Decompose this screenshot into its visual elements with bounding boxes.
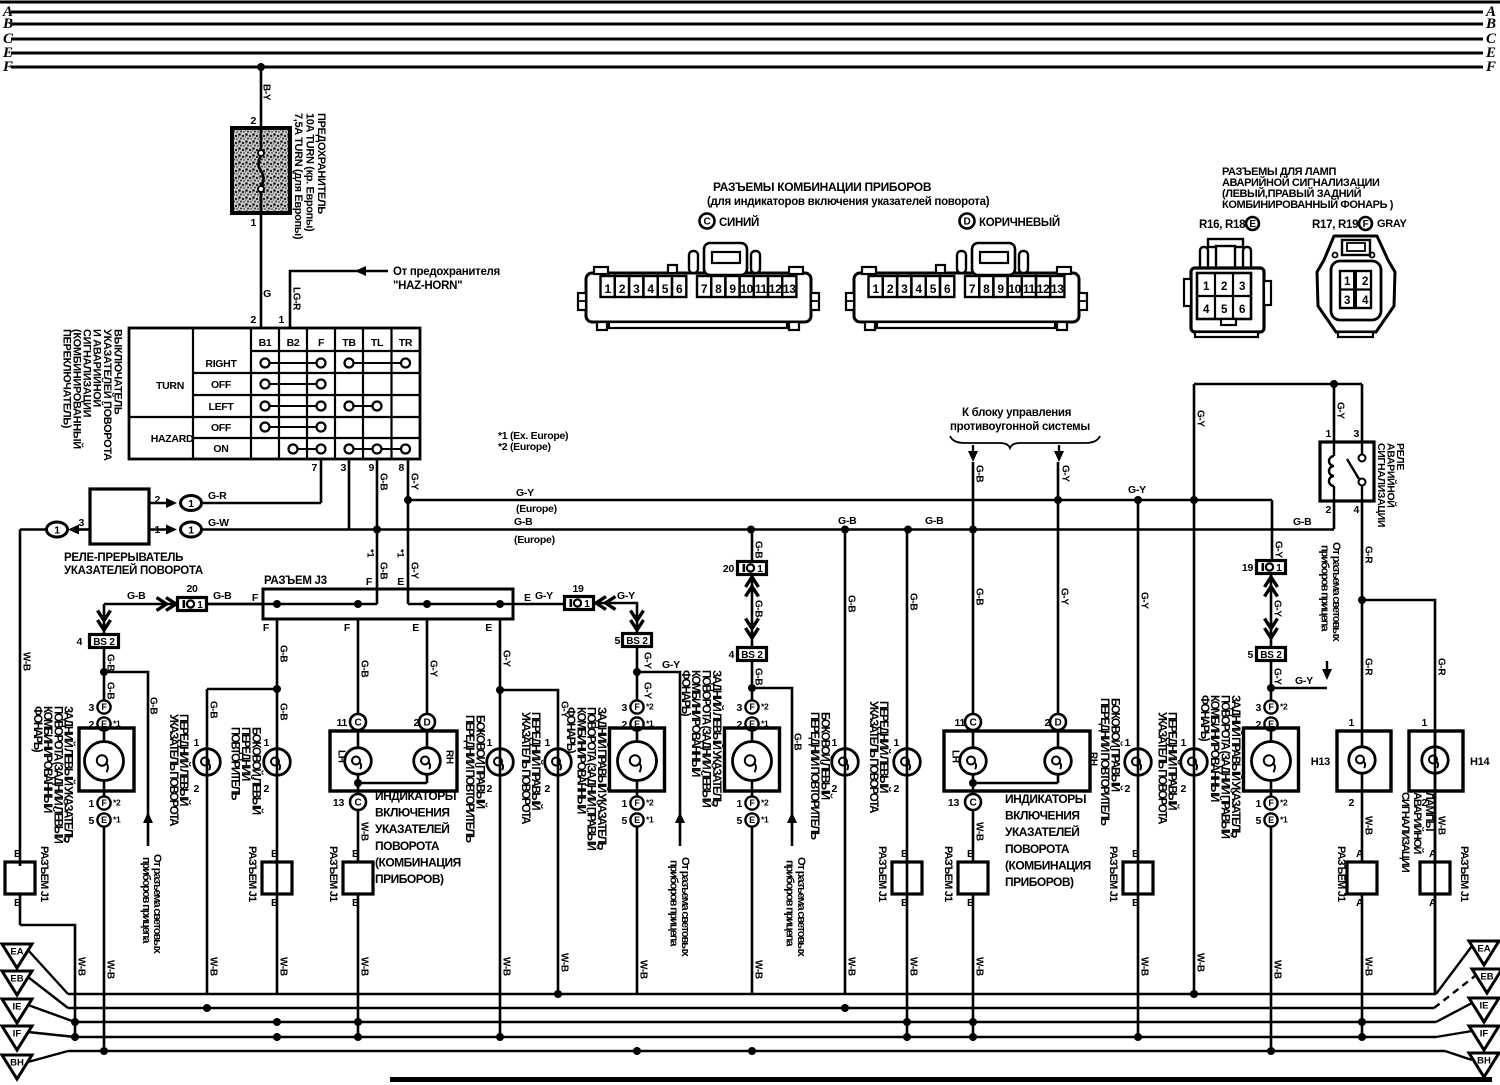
svg-text:*1: *1 <box>365 549 376 558</box>
svg-text:RH: RH <box>444 750 455 764</box>
svg-text:B1: B1 <box>259 337 272 349</box>
svg-text:G-Y: G-Y <box>1295 675 1313 687</box>
svg-text:G: G <box>263 288 271 300</box>
svg-text:G-B: G-B <box>278 645 289 662</box>
svg-text:20: 20 <box>186 583 198 595</box>
svg-text:*1: *1 <box>646 815 654 825</box>
svg-text:2: 2 <box>250 115 256 127</box>
svg-text:УКАЗАТЕЛЕЙ ПОВОРОТА: УКАЗАТЕЛЕЙ ПОВОРОТА <box>64 564 203 577</box>
svg-text:РАЗЪЕМ J1: РАЗЪЕМ J1 <box>1335 846 1347 902</box>
svg-text:G-R: G-R <box>1436 658 1447 676</box>
svg-text:ЛАМПЫ: ЛАМПЫ <box>1423 792 1435 831</box>
svg-text:1: 1 <box>250 217 256 229</box>
svg-text:К блоку управления: К блоку управления <box>962 407 1071 419</box>
svg-text:F: F <box>101 798 107 808</box>
svg-text:1: 1 <box>54 524 60 536</box>
svg-text:1: 1 <box>188 498 194 510</box>
svg-text:TR: TR <box>399 337 413 349</box>
svg-text:3: 3 <box>901 282 908 296</box>
svg-text:ИНДИКАТОРЫ: ИНДИКАТОРЫ <box>375 789 456 803</box>
svg-text:12: 12 <box>769 282 782 296</box>
svg-text:8: 8 <box>398 462 404 474</box>
svg-text:BS 2: BS 2 <box>1260 650 1282 661</box>
svg-text:приборов прицепа: приборов прицепа <box>140 857 152 944</box>
svg-text:G-B: G-B <box>148 697 159 714</box>
svg-text:E: E <box>397 576 404 588</box>
svg-text:2: 2 <box>1348 797 1354 809</box>
svg-text:5: 5 <box>621 815 627 827</box>
svg-text:От предохранителя: От предохранителя <box>393 266 500 278</box>
svg-text:1: 1 <box>1124 737 1130 749</box>
svg-text:7: 7 <box>701 282 708 296</box>
svg-text:1: 1 <box>621 798 627 810</box>
svg-text:RH: RH <box>1088 752 1099 766</box>
svg-text:6: 6 <box>676 282 683 296</box>
svg-text:*2 (Europe): *2 (Europe) <box>498 441 551 453</box>
svg-text:ФОНАРЬ): ФОНАРЬ) <box>679 670 692 717</box>
svg-text:4: 4 <box>915 282 922 296</box>
svg-text:BS 2: BS 2 <box>626 636 648 647</box>
svg-text:F: F <box>634 702 640 712</box>
svg-text:ПОВТОРИТЕЛЬ: ПОВТОРИТЕЛЬ <box>229 727 242 800</box>
svg-text:1: 1 <box>1348 717 1354 729</box>
svg-text:3: 3 <box>1344 295 1350 307</box>
svg-text:4: 4 <box>1203 304 1210 316</box>
svg-text:(КОМБИНАЦИЯ: (КОМБИНАЦИЯ <box>1005 858 1091 872</box>
svg-text:13: 13 <box>783 282 796 296</box>
svg-text:3: 3 <box>1239 281 1245 293</box>
svg-text:2: 2 <box>1124 783 1130 795</box>
svg-text:G-B: G-B <box>846 595 857 612</box>
svg-text:9: 9 <box>729 282 736 296</box>
svg-text:E: E <box>101 815 107 825</box>
svg-text:H14: H14 <box>1470 756 1490 768</box>
svg-text:(Europe): (Europe) <box>516 503 557 515</box>
svg-text:(для индикаторов включения ука: (для индикаторов включения указателей по… <box>707 196 990 208</box>
svg-text:3: 3 <box>1255 702 1261 714</box>
svg-text:5: 5 <box>1247 649 1253 661</box>
svg-text:ПРЕДОХРАНИТЕЛЬ: ПРЕДОХРАНИТЕЛЬ <box>315 113 327 214</box>
svg-text:B: B <box>14 848 22 860</box>
svg-text:B-Y: B-Y <box>261 84 272 101</box>
svg-text:G-Y: G-Y <box>1139 592 1150 609</box>
svg-text:*1: *1 <box>113 815 121 825</box>
svg-text:3: 3 <box>1353 428 1359 440</box>
svg-text:W-B: W-B <box>974 957 985 976</box>
svg-text:A: A <box>1429 848 1437 860</box>
svg-text:2: 2 <box>619 282 626 296</box>
svg-text:F: F <box>1268 798 1274 808</box>
svg-text:B: B <box>352 848 360 860</box>
svg-text:F: F <box>318 337 325 349</box>
svg-text:OFF: OFF <box>211 422 232 434</box>
svg-text:*2: *2 <box>113 798 121 808</box>
svg-text:W-B: W-B <box>1139 957 1150 976</box>
svg-text:3: 3 <box>633 282 640 296</box>
svg-text:1: 1 <box>193 737 199 749</box>
svg-text:От разъема световых: От разъема световых <box>1330 542 1342 642</box>
svg-text:10A TURN (кр. Европы): 10A TURN (кр. Европы) <box>304 113 316 232</box>
svg-text:УКАЗАТЕЛЬ ПОВОРОТА: УКАЗАТЕЛЬ ПОВОРОТА <box>867 701 880 814</box>
svg-text:F: F <box>1363 219 1369 230</box>
svg-text:1: 1 <box>1255 798 1261 810</box>
svg-text:G-B: G-B <box>359 660 370 677</box>
svg-text:РАЗЪЕМ J1: РАЗЪЕМ J1 <box>38 846 50 902</box>
svg-text:*1: *1 <box>761 815 769 825</box>
svg-text:F: F <box>1268 702 1274 712</box>
svg-text:W-B: W-B <box>846 957 857 976</box>
svg-text:W-B: W-B <box>359 822 370 841</box>
svg-text:D: D <box>424 718 431 729</box>
svg-text:G-B: G-B <box>105 682 116 699</box>
svg-text:G-B: G-B <box>278 703 289 720</box>
svg-text:ВКЛЮЧЕНИЯ: ВКЛЮЧЕНИЯ <box>375 806 449 820</box>
svg-text:11: 11 <box>337 717 348 729</box>
svg-text:TB: TB <box>342 337 356 349</box>
svg-text:G-B: G-B <box>213 590 232 602</box>
svg-text:(Europe): (Europe) <box>514 534 555 546</box>
svg-text:13: 13 <box>948 797 960 809</box>
svg-text:2: 2 <box>193 783 199 795</box>
svg-text:5: 5 <box>662 282 669 296</box>
svg-text:4: 4 <box>728 649 734 661</box>
svg-text:1: 1 <box>88 798 94 810</box>
svg-text:E: E <box>485 622 492 634</box>
svg-text:УКАЗАТЕЛЬ ПОВОРОТА: УКАЗАТЕЛЬ ПОВОРОТА <box>519 712 532 825</box>
svg-text:B: B <box>1132 848 1140 860</box>
svg-text:W-B: W-B <box>638 960 649 979</box>
svg-text:G-B: G-B <box>378 473 389 490</box>
svg-text:G-B: G-B <box>753 600 764 617</box>
svg-text:"HAZ-HORN": "HAZ-HORN" <box>393 280 462 292</box>
svg-text:OFF: OFF <box>211 379 232 391</box>
svg-text:4: 4 <box>76 636 82 648</box>
svg-text:G-B: G-B <box>753 668 764 685</box>
svg-text:2: 2 <box>887 282 894 296</box>
svg-text:ИНДИКАТОРЫ: ИНДИКАТОРЫ <box>1005 792 1086 806</box>
svg-text:BS 2: BS 2 <box>93 637 115 648</box>
svg-text:TURN: TURN <box>156 380 184 392</box>
svg-text:1: 1 <box>1276 562 1282 574</box>
svg-text:G-Y: G-Y <box>642 682 653 699</box>
svg-text:G-B: G-B <box>753 541 764 558</box>
svg-text:РАЗЪЕМ J1: РАЗЪЕМ J1 <box>876 846 888 902</box>
svg-text:РАЗЪЕМ J1: РАЗЪЕМ J1 <box>1107 846 1119 902</box>
svg-text:КОМБИНИРОВАННЫЙ ФОНАРЬ ): КОМБИНИРОВАННЫЙ ФОНАРЬ ) <box>1222 198 1394 211</box>
svg-text:5: 5 <box>1255 815 1261 827</box>
svg-text:G-B: G-B <box>838 515 857 527</box>
svg-text:РАЗЪЕМ J1: РАЗЪЕМ J1 <box>942 846 954 902</box>
svg-text:РАЗЪЕМЫ КОМБИНАЦИИ ПРИБОРОВ: РАЗЪЕМЫ КОМБИНАЦИИ ПРИБОРОВ <box>713 180 932 194</box>
svg-text:G-Y: G-Y <box>617 590 635 602</box>
svg-text:B: B <box>1485 16 1496 32</box>
svg-text:G-Y: G-Y <box>642 652 653 669</box>
svg-text:F: F <box>2 59 13 75</box>
svg-text:E: E <box>1249 219 1256 230</box>
svg-text:3: 3 <box>78 517 84 529</box>
svg-text:W-B: W-B <box>105 960 116 979</box>
svg-text:противоугонной системы: противоугонной системы <box>950 421 1090 433</box>
svg-text:EA: EA <box>1477 944 1490 955</box>
svg-text:G-Y: G-Y <box>1335 402 1346 419</box>
svg-text:6: 6 <box>1239 304 1245 316</box>
svg-text:G-R: G-R <box>1363 546 1374 564</box>
svg-text:ПЕРЕКЛЮЧАТЕЛЬ): ПЕРЕКЛЮЧАТЕЛЬ) <box>61 329 73 429</box>
svg-text:F: F <box>749 702 755 712</box>
svg-text:EB: EB <box>1480 972 1493 983</box>
svg-text:IF: IF <box>1480 1029 1489 1040</box>
svg-text:2: 2 <box>544 783 550 795</box>
svg-text:ПЕРЕДНИЙ ПОВТОРИТЕЛЬ: ПЕРЕДНИЙ ПОВТОРИТЕЛЬ <box>1098 698 1111 826</box>
svg-text:5: 5 <box>1221 304 1228 316</box>
svg-text:LEFT: LEFT <box>208 401 234 413</box>
svg-text:IF: IF <box>13 1029 22 1040</box>
svg-text:F: F <box>634 798 640 808</box>
svg-text:РЕЛЕ-ПРЕРЫВАТЕЛЬ: РЕЛЕ-ПРЕРЫВАТЕЛЬ <box>64 552 183 564</box>
svg-text:G-W: G-W <box>208 517 229 529</box>
svg-text:D: D <box>964 217 971 228</box>
svg-text:РАЗЪЕМ J1: РАЗЪЕМ J1 <box>246 846 258 902</box>
svg-text:B: B <box>1132 897 1140 909</box>
svg-text:EA: EA <box>10 947 23 958</box>
svg-text:19: 19 <box>1242 562 1254 574</box>
svg-text:W-B: W-B <box>559 953 570 972</box>
svg-text:F: F <box>252 592 259 604</box>
svg-text:G-B: G-B <box>127 590 146 602</box>
svg-text:G-B: G-B <box>1293 516 1312 528</box>
svg-text:F: F <box>101 702 107 712</box>
svg-text:LG-R: LG-R <box>291 287 302 311</box>
svg-text:W-B: W-B <box>908 957 919 976</box>
svg-text:1: 1 <box>263 737 269 749</box>
svg-text:G-Y: G-Y <box>662 659 680 671</box>
svg-text:B: B <box>2 16 13 32</box>
svg-text:1: 1 <box>1203 281 1210 293</box>
svg-text:ПОВОРОТА: ПОВОРОТА <box>1005 842 1070 856</box>
svg-text:W-B: W-B <box>1363 816 1374 835</box>
svg-text:2: 2 <box>1362 276 1368 288</box>
svg-text:R17, R19: R17, R19 <box>1312 219 1358 231</box>
svg-text:G-Y: G-Y <box>409 473 420 490</box>
svg-text:B: B <box>901 848 909 860</box>
svg-text:2: 2 <box>1180 783 1186 795</box>
svg-text:*2: *2 <box>1280 798 1288 808</box>
svg-text:1: 1 <box>584 598 590 610</box>
svg-text:6: 6 <box>944 282 951 296</box>
svg-text:1: 1 <box>188 524 194 536</box>
svg-text:1: 1 <box>278 314 284 326</box>
svg-text:УКАЗАТЕЛЬ ПОВОРОТА: УКАЗАТЕЛЬ ПОВОРОТА <box>1156 712 1169 825</box>
svg-text:ON: ON <box>213 443 228 455</box>
svg-text:G-Y: G-Y <box>428 660 439 677</box>
svg-text:4: 4 <box>1362 295 1369 307</box>
svg-text:1: 1 <box>1325 428 1331 440</box>
svg-text:W-B: W-B <box>21 652 32 671</box>
svg-text:1: 1 <box>736 798 742 810</box>
svg-text:E: E <box>749 815 755 825</box>
svg-text:ФОНАРЬ): ФОНАРЬ) <box>564 707 577 754</box>
svg-text:7,5A TURN (для Европы): 7,5A TURN (для Европы) <box>292 113 304 240</box>
svg-text:ВКЛЮЧЕНИЯ: ВКЛЮЧЕНИЯ <box>1005 809 1079 823</box>
svg-text:РАЗЪЕМ J1: РАЗЪЕМ J1 <box>1458 846 1470 902</box>
svg-text:5: 5 <box>614 635 620 647</box>
svg-text:F: F <box>263 622 270 634</box>
svg-text:АВАРИЙНОЙ: АВАРИЙНОЙ <box>1411 792 1424 854</box>
svg-text:ПРИБОРОВ): ПРИБОРОВ) <box>375 872 444 886</box>
svg-text:G-B: G-B <box>792 733 803 750</box>
svg-text:20: 20 <box>723 563 735 575</box>
svg-text:11: 11 <box>755 282 768 296</box>
svg-text:G-B: G-B <box>208 701 219 718</box>
svg-text:СИГНАЛИЗАЦИИ: СИГНАЛИЗАЦИИ <box>1399 792 1411 873</box>
svg-text:*2: *2 <box>761 798 769 808</box>
svg-text:5: 5 <box>736 815 742 827</box>
svg-text:ПРИБОРОВ): ПРИБОРОВ) <box>1005 875 1074 889</box>
svg-text:BH: BH <box>1477 1056 1491 1067</box>
svg-text:ФОНАРЬ): ФОНАРЬ) <box>31 706 44 753</box>
svg-text:G-B: G-B <box>974 588 985 605</box>
svg-text:1: 1 <box>197 599 203 611</box>
svg-text:G-Y: G-Y <box>535 590 553 602</box>
svg-text:W-B: W-B <box>1272 960 1283 979</box>
svg-text:F: F <box>1485 59 1496 75</box>
svg-text:приборов прицепа: приборов прицепа <box>668 860 680 947</box>
svg-text:приборов прицепа: приборов прицепа <box>1319 545 1331 632</box>
svg-text:G-B: G-B <box>974 465 985 482</box>
svg-text:G-Y: G-Y <box>1272 668 1283 685</box>
svg-text:3: 3 <box>88 702 94 714</box>
svg-text:ПЕРЕДНИЙ ПОВТОРИТЕЛЬ: ПЕРЕДНИЙ ПОВТОРИТЕЛЬ <box>463 715 476 843</box>
svg-text:W-B: W-B <box>974 822 985 841</box>
svg-text:G-B: G-B <box>925 515 944 527</box>
svg-text:1: 1 <box>1421 717 1427 729</box>
svg-text:4: 4 <box>647 282 654 296</box>
svg-text:11: 11 <box>1023 282 1036 296</box>
svg-text:W-B: W-B <box>208 957 219 976</box>
svg-text:7: 7 <box>969 282 976 296</box>
svg-text:B: B <box>967 848 975 860</box>
svg-text:УКАЗАТЕЛЬ ПОВОРОТА: УКАЗАТЕЛЬ ПОВОРОТА <box>167 714 180 827</box>
svg-text:G-B: G-B <box>514 516 533 528</box>
svg-text:*1: *1 <box>395 549 406 558</box>
svg-text:G-Y: G-Y <box>1060 465 1071 482</box>
svg-text:2: 2 <box>893 783 899 795</box>
svg-text:F: F <box>344 622 351 634</box>
svg-text:1: 1 <box>544 737 550 749</box>
svg-text:10: 10 <box>740 282 753 296</box>
svg-text:3: 3 <box>736 702 742 714</box>
svg-text:УКАЗАТЕЛЕЙ: УКАЗАТЕЛЕЙ <box>1005 824 1079 839</box>
svg-text:*2: *2 <box>646 798 654 808</box>
svg-text:W-B: W-B <box>359 957 370 976</box>
svg-text:E: E <box>412 622 419 634</box>
svg-text:G-R: G-R <box>208 490 227 502</box>
svg-text:C: C <box>355 798 362 809</box>
svg-text:RIGHT: RIGHT <box>205 358 237 370</box>
svg-text:E: E <box>634 815 640 825</box>
svg-text:G-Y: G-Y <box>1059 588 1070 605</box>
svg-text:13: 13 <box>1051 282 1064 296</box>
svg-text:H13: H13 <box>1311 756 1330 768</box>
svg-text:BH: BH <box>10 1058 24 1069</box>
svg-text:G-Y: G-Y <box>1273 541 1284 558</box>
svg-text:IE: IE <box>13 1002 22 1013</box>
svg-text:G-Y: G-Y <box>409 562 420 579</box>
svg-text:СИГНАЛИЗАЦИИ: СИГНАЛИЗАЦИИ <box>1375 443 1387 527</box>
svg-text:BS 2: BS 2 <box>741 650 763 661</box>
svg-text:B: B <box>271 848 279 860</box>
svg-text:D: D <box>1055 718 1062 729</box>
svg-text:1: 1 <box>757 563 763 575</box>
svg-text:*1: *1 <box>1280 815 1288 825</box>
svg-text:W-B: W-B <box>1363 957 1374 976</box>
svg-text:C: C <box>355 718 362 729</box>
svg-text:*2: *2 <box>646 702 654 712</box>
svg-text:F: F <box>366 576 373 588</box>
svg-text:5: 5 <box>930 282 937 296</box>
svg-text:G-Y: G-Y <box>1272 600 1283 617</box>
svg-text:2: 2 <box>250 314 256 326</box>
svg-text:От разъема световых: От разъема световых <box>679 857 691 957</box>
svg-text:B: B <box>271 897 279 909</box>
svg-text:(КОМБИНАЦИЯ: (КОМБИНАЦИЯ <box>375 855 461 869</box>
svg-text:F: F <box>749 798 755 808</box>
svg-text:РАЗЪЕМ J1: РАЗЪЕМ J1 <box>327 846 339 902</box>
svg-text:1: 1 <box>605 282 612 296</box>
svg-text:G-Y: G-Y <box>501 650 512 667</box>
svg-text:GRAY: GRAY <box>1377 218 1408 230</box>
svg-text:HAZARD: HAZARD <box>151 433 194 445</box>
svg-text:13: 13 <box>333 797 345 809</box>
svg-text:5: 5 <box>88 815 94 827</box>
svg-text:УКАЗАТЕЛЕЙ: УКАЗАТЕЛЕЙ <box>375 821 449 836</box>
svg-text:C: C <box>970 718 977 729</box>
svg-text:EB: EB <box>10 974 23 985</box>
svg-text:8: 8 <box>715 282 722 296</box>
svg-text:КОРИЧНЕВЫЙ: КОРИЧНЕВЫЙ <box>979 216 1060 229</box>
svg-text:*2: *2 <box>761 702 769 712</box>
svg-text:W-B: W-B <box>1436 816 1447 835</box>
svg-text:G-B: G-B <box>378 562 389 579</box>
svg-text:3: 3 <box>621 702 627 714</box>
svg-text:TL: TL <box>371 337 384 349</box>
svg-text:G-R: G-R <box>1363 658 1374 676</box>
svg-text:W-B: W-B <box>1195 953 1206 972</box>
svg-text:ПОВОРОТА: ПОВОРОТА <box>375 839 440 853</box>
svg-text:7: 7 <box>311 462 317 474</box>
svg-text:19: 19 <box>572 583 584 595</box>
svg-text:1: 1 <box>1180 737 1186 749</box>
svg-text:W-B: W-B <box>76 957 87 976</box>
svg-text:A: A <box>1356 848 1364 860</box>
svg-text:1: 1 <box>1344 276 1351 288</box>
svg-text:2: 2 <box>1221 281 1227 293</box>
svg-text:РАЗЪЕМ J3: РАЗЪЕМ J3 <box>264 575 327 587</box>
svg-text:W-B: W-B <box>753 960 764 979</box>
svg-text:1: 1 <box>893 737 899 749</box>
svg-text:E: E <box>524 592 531 604</box>
svg-text:приборов прицепа: приборов прицепа <box>784 860 796 947</box>
svg-text:4: 4 <box>1353 504 1359 516</box>
svg-text:10: 10 <box>1008 282 1021 296</box>
svg-text:ФОНАРЬ): ФОНАРЬ) <box>1198 695 1211 742</box>
svg-text:R16, R18: R16, R18 <box>1199 219 1246 231</box>
svg-text:C: C <box>704 217 711 228</box>
svg-text:3: 3 <box>340 462 346 474</box>
svg-text:E: E <box>1268 815 1274 825</box>
svg-text:2: 2 <box>1325 504 1331 516</box>
svg-text:G-Y: G-Y <box>1195 410 1206 427</box>
